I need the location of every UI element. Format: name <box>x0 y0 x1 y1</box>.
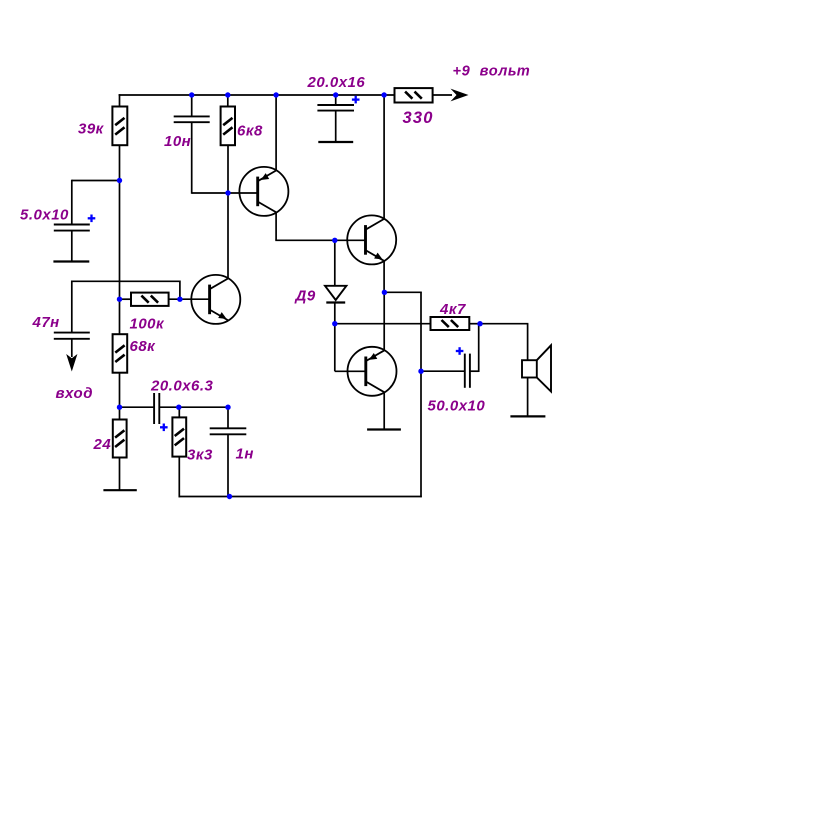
capacitor C 20.0x6.3 <box>153 393 155 424</box>
resistor R 68k <box>113 334 128 373</box>
resistor R 330 <box>395 88 433 102</box>
wire 1n top lead <box>227 407 229 428</box>
wire feedback right down to 100k <box>179 281 181 300</box>
wire 6k8 top lead <box>227 94 229 107</box>
wire C 47n lower stem <box>71 339 73 357</box>
wire feedback left down to C 47n <box>71 281 73 333</box>
wire Q3 emitter down <box>383 261 385 293</box>
capacitor C 10n <box>174 115 210 117</box>
junction dot 3 <box>273 92 278 97</box>
wire node to diode D9 <box>334 240 336 285</box>
wire branch to C 5.0x10 <box>72 180 120 182</box>
junction dot 2 <box>225 92 230 97</box>
plus sign C 50.0x10 <box>456 350 464 352</box>
svg-text:4к7: 4к7 <box>439 301 466 318</box>
resistor R 39k <box>112 107 127 146</box>
junction dot 17 <box>418 369 423 374</box>
resistor R 6k8 <box>221 107 235 146</box>
transistor Q1 <box>191 275 240 324</box>
wire C 10n top stem <box>191 94 193 116</box>
wire 100k left lead <box>120 298 132 300</box>
wire node to C 20.0x6.3 <box>120 406 155 408</box>
svg-text:Д9: Д9 <box>294 288 316 305</box>
wire output node horizontal <box>383 291 421 293</box>
wire 24 bottom lead <box>119 457 121 490</box>
wire C 20.0x16 lower stem <box>335 111 337 142</box>
wire Q1 collector riser <box>227 145 229 279</box>
wire 39k bottom to node <box>119 145 121 299</box>
wire Q3 collector riser <box>383 94 385 219</box>
svg-text:39к: 39к <box>78 121 105 138</box>
resistor R 4k7 <box>431 317 470 330</box>
svg-text:47н: 47н <box>32 314 60 331</box>
junction dot 1 <box>189 92 194 97</box>
junction dot 13 <box>477 321 482 326</box>
wire top +9V rail <box>119 94 395 96</box>
svg-text:6к8: 6к8 <box>237 123 263 140</box>
wire node B down <box>334 324 336 372</box>
svg-text:330: 330 <box>403 109 434 127</box>
+9V supply arrow <box>451 89 469 102</box>
junction dot 5 <box>381 92 386 97</box>
wire bottom rail <box>179 496 422 498</box>
wire C 10n bottom to node <box>191 122 193 194</box>
wire speaker bottom lead <box>527 378 529 417</box>
wire 1n bottom lead <box>227 434 229 496</box>
resistor R 24 <box>113 420 127 458</box>
plus sign C 20.0x16 <box>352 98 360 100</box>
junction dot 9 <box>225 190 230 195</box>
transistor Q3 <box>347 215 396 264</box>
svg-text:+9 вольт: +9 вольт <box>453 64 531 80</box>
svg-text:20.0x6.3: 20.0x6.3 <box>150 378 214 395</box>
resistor R 3k3 <box>172 417 186 456</box>
svg-text:5.0x10: 5.0x10 <box>20 207 69 224</box>
wire R 330 right lead <box>433 94 452 96</box>
svg-text:50.0x10: 50.0x10 <box>428 398 486 415</box>
wire C 20.0x16 top stem <box>335 94 337 105</box>
wire right riser x=421 <box>420 292 422 497</box>
junction dot 7 <box>117 297 122 302</box>
wire C 20.0x6.3 to 3k3 node <box>159 406 228 408</box>
transistor Q2 <box>239 167 288 216</box>
wire to Q4 base <box>335 370 366 372</box>
junction dot 15 <box>176 405 181 410</box>
wire 68k top lead <box>119 299 121 334</box>
wire feedback top horizontal <box>72 280 180 282</box>
ground bar Q4 <box>367 428 401 430</box>
ground bar speaker <box>510 415 545 417</box>
ground bar R 24 <box>103 489 136 491</box>
wire 24 top lead <box>119 407 121 419</box>
svg-text:24: 24 <box>93 436 112 453</box>
wire Q4 collector down <box>383 392 385 429</box>
capacitor C 20.0x16 <box>317 104 354 106</box>
speaker <box>522 360 537 377</box>
wire Q4 emitter riser <box>383 292 385 350</box>
wire 39k top lead <box>119 94 121 107</box>
transistor Q4 <box>348 347 397 396</box>
svg-text:вход: вход <box>56 385 93 402</box>
wire to speaker <box>480 323 528 325</box>
junction dot 8 <box>177 297 182 302</box>
svg-text:3к3: 3к3 <box>187 447 213 464</box>
diode D9 <box>325 286 346 300</box>
capacitor C 1n <box>210 427 247 429</box>
junction dot 4 <box>333 92 338 97</box>
wire node B to R 4k7 <box>335 323 431 325</box>
input arrow <box>66 354 77 372</box>
svg-text:100к: 100к <box>130 316 166 333</box>
svg-text:10н: 10н <box>164 133 191 150</box>
junction dot 16 <box>225 405 230 410</box>
wire C 5.0x10 lower stem <box>71 231 73 262</box>
resistor R 100k <box>131 293 169 306</box>
capacitor C 47n <box>54 332 90 334</box>
plus sign C 20.0x6.3 <box>160 426 168 428</box>
wire Q2 emitter riser <box>275 94 277 171</box>
junction dot 14 <box>117 405 122 410</box>
wire Q2 collector down <box>275 212 277 241</box>
wire 3k3 bottom lead <box>178 457 180 498</box>
capacitor C 5.0x10 <box>54 224 90 226</box>
junction dot 10 <box>332 238 337 243</box>
wire Q2 collector to Q3 base <box>275 239 365 241</box>
wire diode D9 bottom lead <box>334 303 336 324</box>
junction dot 12 <box>332 321 337 326</box>
wire node to Q2 base <box>228 192 258 194</box>
wire 100k right lead to Q1 base <box>169 298 210 300</box>
wire to C 50.0x10 <box>421 370 465 372</box>
wire R 4k7 right lead <box>469 323 480 325</box>
wire 3k3 top lead <box>178 407 180 417</box>
svg-text:1н: 1н <box>236 446 254 463</box>
capacitor C 50.0x10 <box>464 354 466 388</box>
plus sign C 5.0x10 <box>88 217 96 219</box>
wire 68k bottom lead <box>119 373 121 408</box>
svg-text:20.0x16: 20.0x16 <box>307 74 366 91</box>
junction dot 11 <box>382 290 387 295</box>
wire C 50.0x10 right lead <box>470 370 479 372</box>
junction dot 6 <box>117 178 122 183</box>
terminal bar C 20.0x16 <box>318 141 353 143</box>
junction dot 18 <box>227 494 232 499</box>
terminal bar C 5.0x10 <box>53 260 89 262</box>
svg-text:68к: 68к <box>130 338 157 355</box>
